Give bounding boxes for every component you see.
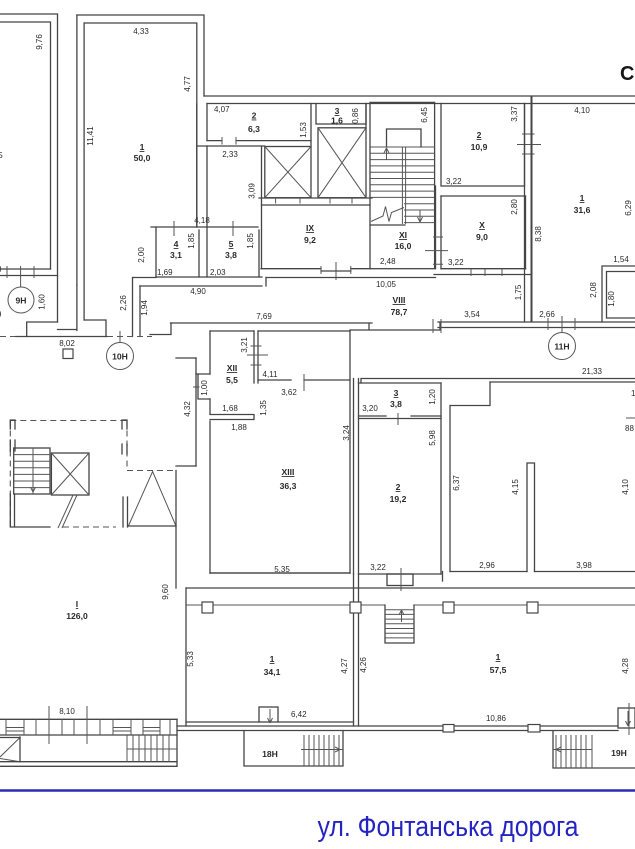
wall pair continues down	[354, 574, 359, 726]
top main wall going right	[204, 95, 635, 97]
svg-text:1,53: 1,53	[299, 122, 308, 138]
svg-text:VIII: VIII	[393, 295, 406, 305]
svg-text:9,2: 9,2	[304, 235, 316, 245]
svg-text:3,22: 3,22	[448, 258, 464, 267]
svg-text:9,76: 9,76	[35, 34, 44, 50]
svg-text:3: 3	[394, 388, 399, 398]
svg-text:4,10: 4,10	[574, 106, 590, 115]
bottom wall of room1 row	[133, 277, 156, 279]
svg-text:6,29: 6,29	[624, 200, 633, 216]
svg-text:5,5: 5,5	[226, 375, 238, 385]
passage below room 1	[58, 285, 77, 331]
svg-text:4,90: 4,90	[190, 287, 206, 296]
wall between rooms row and VIII	[261, 268, 370, 270]
svg-text:10,9: 10,9	[471, 142, 488, 152]
room 3 (1,6)	[316, 104, 366, 125]
chevron ramp	[0, 737, 20, 739]
19H door bump	[618, 708, 635, 728]
svg-text:1,35: 1,35	[259, 400, 268, 416]
svg-text:88: 88	[625, 424, 634, 433]
svg-text:3,09: 3,09	[248, 183, 257, 199]
svg-text:ХI: ХI	[399, 230, 407, 240]
svg-text:9Н: 9Н	[16, 296, 27, 306]
svg-text:ХII: ХII	[227, 363, 238, 373]
svg-text:0,86: 0,86	[351, 108, 360, 124]
svg-text:2,33: 2,33	[222, 150, 238, 159]
svg-text:78,7: 78,7	[391, 307, 408, 317]
svg-text:11Н: 11Н	[554, 342, 569, 352]
svg-text:10,86: 10,86	[486, 714, 507, 723]
top walls	[361, 379, 635, 384]
svg-text:1,54: 1,54	[613, 255, 629, 264]
svg-text:9,0: 9,0	[476, 232, 488, 242]
svg-text:2,00: 2,00	[137, 247, 146, 263]
svg-text:11,41: 11,41	[86, 126, 95, 146]
room 3 (3,8)	[359, 382, 442, 384]
9H circle	[8, 287, 34, 313]
svg-text:34,1: 34,1	[264, 667, 281, 677]
svg-text:1,: 1,	[631, 389, 635, 398]
svg-text:ул. Фонтанська дорога: ул. Фонтанська дорога	[318, 811, 580, 843]
svg-text:126,0: 126,0	[66, 611, 88, 621]
svg-text:2: 2	[477, 130, 482, 140]
bottom wall of left room with door ticks	[0, 268, 51, 270]
canopy triangle	[128, 472, 176, 527]
svg-text:21,33: 21,33	[582, 367, 603, 376]
left block lower step	[27, 322, 58, 337]
svg-text:4,32: 4,32	[183, 401, 192, 417]
svg-text:8,10: 8,10	[59, 707, 75, 716]
dashed baseline	[0, 336, 16, 338]
bottom walls of upper rooms	[210, 572, 635, 575]
svg-text:6,3: 6,3	[248, 124, 260, 134]
svg-text:4,28: 4,28	[621, 658, 630, 674]
svg-text:19Н: 19Н	[611, 748, 627, 758]
svg-text:Се: Се	[620, 63, 635, 85]
line A	[186, 587, 635, 589]
bottom walls of VIII	[171, 322, 373, 324]
wall right of XII with door	[258, 379, 350, 381]
svg-text:10Н: 10Н	[112, 352, 128, 362]
svg-text:1,85: 1,85	[246, 233, 255, 249]
room 2 (6,3)	[207, 104, 311, 147]
svg-text:1: 1	[270, 654, 275, 664]
11H	[561, 316, 563, 333]
svg-text:4,15: 4,15	[511, 479, 520, 495]
svg-text:4,07: 4,07	[214, 105, 230, 114]
svg-text:31,6: 31,6	[574, 205, 591, 215]
svg-text:16,0: 16,0	[395, 241, 412, 251]
door bump under room 19,2	[387, 574, 413, 586]
svg-text:5,33: 5,33	[186, 651, 195, 667]
terrace stairs right	[127, 735, 169, 762]
svg-text:10,05: 10,05	[376, 280, 397, 289]
svg-text:3,98: 3,98	[576, 561, 592, 570]
10H circle	[119, 331, 121, 343]
inner stairs	[385, 605, 414, 643]
svg-text:1: 1	[580, 193, 585, 203]
bottom wall with door bump	[186, 721, 354, 723]
common bottom double wall	[177, 725, 618, 727]
svg-text:3,37: 3,37	[510, 106, 519, 122]
svg-text:2: 2	[396, 482, 401, 492]
svg-text:3,8: 3,8	[225, 250, 237, 260]
svg-text:8,38: 8,38	[534, 226, 543, 242]
notch left of XII	[196, 374, 210, 399]
stairs	[14, 448, 50, 494]
dashed rectangle with corner tabs	[10, 420, 127, 422]
west wall pair	[354, 379, 359, 575]
below outline	[10, 494, 50, 527]
svg-text:1,68: 1,68	[222, 404, 238, 413]
svg-text:I: I	[76, 599, 78, 609]
left room outer walls	[0, 14, 58, 322]
9H leader	[20, 278, 22, 287]
svg-text:7,69: 7,69	[256, 312, 272, 321]
svg-text:18Н: 18Н	[262, 749, 278, 759]
treads	[370, 147, 435, 223]
svg-text:1,00: 1,00	[200, 380, 209, 396]
svg-text:57,5: 57,5	[490, 665, 507, 675]
svg-text:1,75: 1,75	[514, 284, 523, 300]
svg-text:1,80: 1,80	[607, 291, 616, 307]
svg-text:1,88: 1,88	[231, 423, 247, 432]
svg-text:6,37: 6,37	[452, 475, 461, 491]
svg-text:4,77: 4,77	[183, 76, 192, 92]
svg-text:4,10: 4,10	[621, 479, 630, 495]
break squiggle	[371, 207, 404, 222]
svg-text:50,0: 50,0	[134, 153, 151, 163]
wall under room2 to elevators	[197, 145, 265, 147]
svg-text:4,33: 4,33	[133, 27, 149, 36]
svg-text:5: 5	[229, 239, 234, 249]
svg-text:4,18: 4,18	[194, 216, 210, 225]
svg-text:Х: Х	[479, 220, 485, 230]
svg-text:3,21: 3,21	[240, 337, 249, 353]
svg-text:3,8: 3,8	[390, 399, 402, 409]
svg-text:4,27: 4,27	[340, 658, 349, 674]
svg-text:3,22: 3,22	[446, 177, 462, 186]
svg-text:1,60: 1,60	[38, 294, 47, 310]
svg-text:8,02: 8,02	[59, 339, 75, 348]
svg-text:2,80: 2,80	[510, 199, 519, 215]
svg-text:1,85: 1,85	[187, 233, 196, 249]
elevator B	[318, 128, 366, 198]
svg-text:1: 1	[140, 142, 145, 152]
svg-text:3,20: 3,20	[362, 404, 378, 413]
up arrow	[384, 148, 389, 160]
svg-text:3,1: 3,1	[170, 250, 182, 260]
line B with pillars	[186, 604, 635, 606]
room 1 (50,0)	[77, 15, 204, 96]
svg-text:3,62: 3,62	[281, 388, 297, 397]
svg-text:1,94: 1,94	[140, 300, 149, 316]
svg-text:2: 2	[252, 111, 257, 121]
svg-text:6,45: 6,45	[420, 107, 429, 123]
svg-text:6,42: 6,42	[291, 710, 307, 719]
svg-text:1,20: 1,20	[428, 389, 437, 405]
svg-text:4,11: 4,11	[263, 370, 279, 379]
landing	[387, 129, 422, 147]
svg-text:5,98: 5,98	[428, 430, 437, 446]
svg-text:2,26: 2,26	[119, 295, 128, 311]
svg-text:36,3: 36,3	[280, 481, 297, 491]
svg-text:2,66: 2,66	[539, 310, 555, 319]
svg-text:2,48: 2,48	[380, 257, 396, 266]
svg-text:3,54: 3,54	[464, 310, 480, 319]
svg-text:2,96: 2,96	[479, 561, 495, 570]
svg-text:1: 1	[496, 652, 501, 662]
svg-text:2,03: 2,03	[210, 268, 226, 277]
svg-text:IХ: IХ	[306, 223, 314, 233]
svg-text:1,6: 1,6	[331, 116, 343, 126]
svg-text:9,60: 9,60	[161, 584, 170, 600]
svg-text:2,08: 2,08	[589, 282, 598, 298]
elevator A	[265, 147, 311, 198]
stub wall	[527, 463, 535, 572]
SECTIONS INSERTED BELOW	[0, 14, 58, 337]
XII bottom	[210, 415, 254, 420]
down arrow	[418, 210, 423, 222]
elevator	[51, 453, 89, 495]
svg-text:4,26: 4,26	[359, 657, 368, 673]
svg-text:19,2: 19,2	[390, 494, 407, 504]
svg-text:4: 4	[174, 239, 179, 249]
svg-text:3,22: 3,22	[370, 563, 386, 572]
svg-text:1,69: 1,69	[157, 268, 173, 277]
svg-text:3: 3	[335, 106, 340, 116]
svg-text:ХIII: ХIII	[282, 467, 295, 477]
rooms 4 and 5	[151, 226, 258, 228]
svg-text:3,24: 3,24	[342, 425, 351, 441]
